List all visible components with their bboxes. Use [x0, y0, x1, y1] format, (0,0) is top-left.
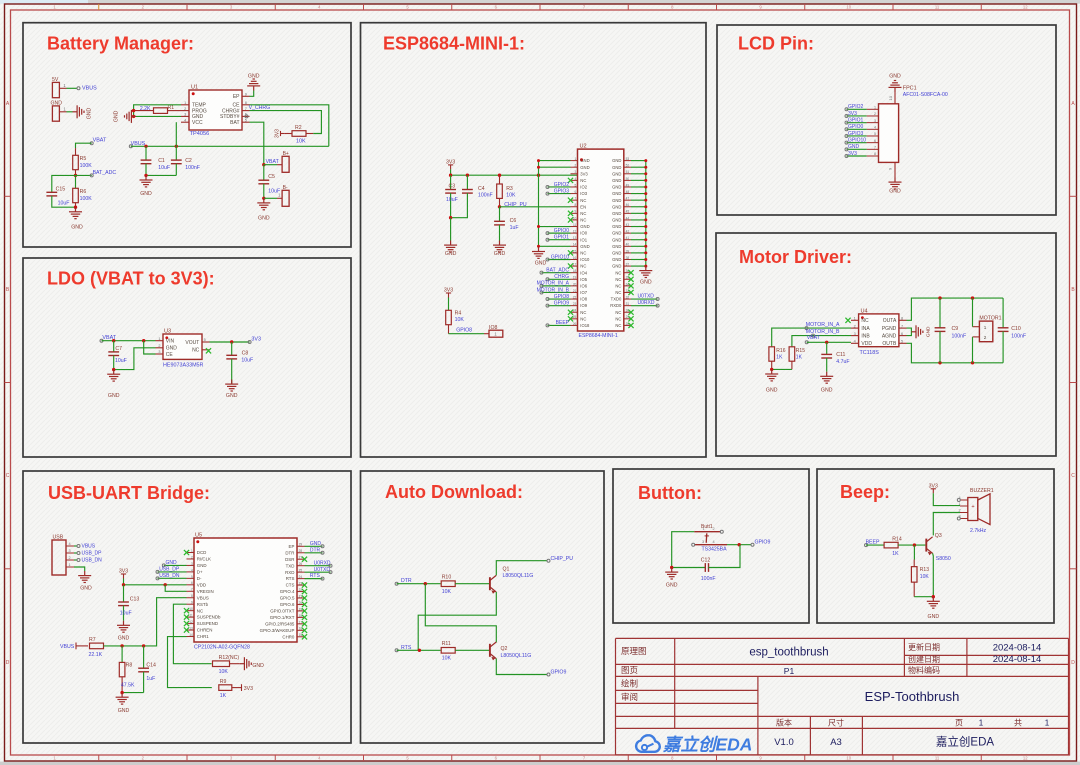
- svg-text:GND: GND: [310, 541, 322, 547]
- U5 pin 17 GPIO.2/RS485: [297, 623, 305, 625]
- svg-text:100nF: 100nF: [478, 192, 493, 198]
- wire U2 right GND stub 4: [631, 179, 646, 181]
- transistor Q1 L8050QL11G: [489, 577, 491, 590]
- U3 pin 2 GND: [156, 347, 164, 349]
- svg-text:IO10: IO10: [580, 257, 590, 262]
- svg-text:29: 29: [299, 543, 303, 547]
- capacitor C5 10uF: [263, 165, 265, 181]
- svg-text:NC: NC: [615, 316, 621, 321]
- svg-text:43: 43: [626, 223, 630, 227]
- svg-text:AFC01-S08FCA-00: AFC01-S08FCA-00: [903, 92, 948, 98]
- FPC1 pin 2 3V3: [867, 115, 879, 117]
- svg-text:U0TXD: U0TXD: [314, 567, 331, 573]
- svg-text:IO18: IO18: [580, 323, 590, 328]
- wire USB_DP: [74, 552, 78, 554]
- svg-text:1: 1: [158, 337, 160, 341]
- svg-text:14: 14: [573, 243, 577, 247]
- svg-text:5: 5: [245, 118, 247, 122]
- svg-text:U0RXD: U0RXD: [638, 300, 655, 306]
- svg-text:GPIO8: GPIO8: [554, 294, 570, 300]
- svg-text:GND: GND: [612, 204, 621, 209]
- svg-text:IO9: IO9: [580, 303, 587, 308]
- wire CE tie to VIN: [144, 341, 156, 354]
- svg-text:3: 3: [158, 350, 160, 354]
- svg-text:S8050: S8050: [936, 556, 951, 562]
- svg-text:GND: GND: [612, 231, 621, 236]
- svg-text:46: 46: [626, 203, 630, 207]
- U1 pin 5 BAT: [242, 121, 250, 123]
- svg-text:绘制: 绘制: [621, 678, 638, 688]
- U1 pin 6 STDBY#: [242, 115, 250, 117]
- wire button right to GPIO9: [727, 544, 752, 546]
- svg-text:共: 共: [1014, 718, 1022, 727]
- svg-text:GND: GND: [612, 178, 621, 183]
- wire U3 GND loop: [114, 348, 156, 370]
- svg-text:NC: NC: [580, 178, 586, 183]
- svg-text:GPIO0: GPIO0: [848, 124, 864, 130]
- wire CE loop to VBUS rail: [250, 105, 329, 147]
- buzzer pin 1: [960, 505, 968, 507]
- U3 pin 5 VOUT: [202, 341, 210, 343]
- svg-text:9: 9: [191, 601, 193, 605]
- svg-text:2.2K: 2.2K: [140, 106, 151, 112]
- USB-UART box: [23, 471, 351, 743]
- net label USB_DN u5: [158, 577, 187, 579]
- svg-text:47.5K: 47.5K: [121, 682, 135, 688]
- svg-text:GPIO.5: GPIO.5: [280, 596, 295, 601]
- resistor R16 1K: [769, 347, 775, 361]
- chip U2 ESP8684-MINI-1: [578, 149, 624, 331]
- wire R10 to Q1 base: [455, 583, 489, 585]
- FPC1 pin 1 GPIO2: [867, 108, 879, 110]
- net label GND u5 right: [305, 545, 323, 547]
- svg-text:GND: GND: [535, 260, 547, 266]
- svg-text:GND: GND: [580, 244, 589, 249]
- net label U0TXD u5: [305, 571, 331, 573]
- svg-text:25: 25: [573, 315, 577, 319]
- svg-text:NC: NC: [861, 318, 869, 324]
- svg-text:R4: R4: [455, 311, 462, 317]
- U5 pin 29 EP: [297, 545, 305, 547]
- svg-text:B-: B-: [283, 185, 288, 191]
- svg-text:GND: GND: [612, 257, 621, 262]
- svg-text:GPIO.6: GPIO.6: [280, 602, 295, 607]
- svg-text:GND: GND: [612, 191, 621, 196]
- wire VBAT to B+: [264, 164, 277, 166]
- wire U2 right GND stub 2: [631, 166, 646, 168]
- net label U0RXD: [631, 305, 658, 307]
- svg-text:3V3: 3V3: [244, 686, 253, 692]
- svg-text:8: 8: [191, 594, 193, 598]
- svg-text:3V3: 3V3: [444, 288, 453, 294]
- svg-text:10K: 10K: [506, 192, 516, 198]
- Auto Download box: [361, 471, 605, 743]
- net label BAT_ADC: [542, 272, 571, 274]
- svg-text:RI/CLK: RI/CLK: [197, 557, 211, 562]
- svg-text:6: 6: [191, 581, 193, 585]
- U5 pin 5 D-: [187, 577, 195, 579]
- svg-text:Button:: Button:: [638, 483, 702, 503]
- svg-text:GND: GND: [108, 393, 120, 399]
- U4 pin 8 OUTA: [899, 319, 907, 321]
- svg-text:GPIO9: GPIO9: [551, 670, 567, 676]
- svg-text:21: 21: [573, 289, 577, 293]
- svg-text:1uF: 1uF: [146, 676, 155, 682]
- net label DTR u5: [305, 552, 323, 554]
- svg-text:L8050QL11G: L8050QL11G: [503, 573, 534, 579]
- svg-text:GPIO10: GPIO10: [848, 137, 866, 143]
- wire U2 right GND stub 7: [631, 199, 646, 201]
- svg-text:R15: R15: [796, 348, 805, 354]
- svg-text:FPC1: FPC1: [903, 85, 917, 91]
- svg-text:C2: C2: [185, 158, 192, 164]
- svg-text:2: 2: [854, 324, 856, 328]
- svg-text:USB_DP: USB_DP: [82, 550, 103, 556]
- svg-text:GND: GND: [640, 279, 652, 285]
- svg-text:USB_DN: USB_DN: [82, 557, 103, 563]
- svg-text:3: 3: [854, 332, 856, 336]
- svg-text:1: 1: [191, 549, 193, 553]
- U1 pin 9 EP: [242, 95, 250, 97]
- svg-text:4: 4: [713, 540, 715, 544]
- svg-text:GND: GND: [926, 326, 932, 337]
- svg-text:GND: GND: [612, 224, 621, 229]
- svg-text:页: 页: [955, 718, 963, 727]
- svg-text:C3: C3: [449, 183, 456, 189]
- svg-text:2: 2: [191, 555, 193, 559]
- chip U4 TC118S: [859, 314, 899, 347]
- svg-text:GPIO2: GPIO2: [554, 182, 570, 188]
- U5 pin 24 RTS: [297, 578, 305, 580]
- FPC1 pin 3 GPIO1: [867, 122, 879, 124]
- svg-text:CHR1: CHR1: [197, 634, 210, 639]
- svg-text:10uF: 10uF: [158, 165, 170, 171]
- svg-text:10K: 10K: [219, 669, 229, 675]
- U1 pin 2 PROG: [181, 110, 189, 112]
- svg-text:U2: U2: [580, 144, 587, 150]
- svg-text:RXD0: RXD0: [610, 303, 622, 308]
- svg-text:GND: GND: [118, 635, 130, 641]
- net label GPIO9: [548, 305, 571, 307]
- wire C1-C2 bottoms: [146, 174, 176, 176]
- svg-text:GND: GND: [928, 614, 940, 620]
- wire U2 right GND stub 11: [631, 226, 646, 228]
- svg-text:IO4: IO4: [580, 270, 587, 275]
- svg-text:10uF: 10uF: [58, 201, 70, 207]
- capacitor C12 100nF: [704, 563, 706, 572]
- svg-text:V1.0: V1.0: [774, 737, 794, 748]
- net flag VBAT ldo: [100, 339, 103, 342]
- ground below C8: [225, 380, 238, 392]
- wire Q1 emitter to RTS net: [418, 592, 496, 650]
- svg-text:GND: GND: [80, 585, 92, 591]
- svg-text:VCC: VCC: [192, 120, 203, 126]
- svg-text:AGND: AGND: [882, 333, 897, 339]
- svg-text:9: 9: [575, 210, 577, 214]
- svg-text:Q2: Q2: [501, 646, 508, 652]
- svg-text:17: 17: [299, 620, 303, 624]
- svg-text:3V3: 3V3: [275, 129, 281, 138]
- resistor R11 10K: [441, 648, 455, 654]
- wire U2 right GND stub 15: [631, 252, 646, 254]
- LCD box: [717, 25, 1056, 215]
- svg-text:100nF: 100nF: [952, 333, 967, 339]
- svg-text:10K: 10K: [442, 655, 452, 661]
- svg-text:16: 16: [299, 627, 303, 631]
- svg-text:IO6: IO6: [580, 283, 587, 288]
- chip U3 HE9073A33M5R: [163, 334, 202, 359]
- svg-text:R5: R5: [80, 156, 87, 162]
- svg-text:GND: GND: [612, 251, 621, 256]
- svg-text:22: 22: [573, 295, 577, 299]
- U5 pin 7 VREGIN: [187, 590, 195, 592]
- wire 3V3 to buzzer pin1: [933, 493, 960, 505]
- svg-text:26: 26: [573, 322, 577, 326]
- svg-text:3: 3: [191, 562, 193, 566]
- svg-text:NC: NC: [580, 218, 586, 223]
- svg-text:3V3: 3V3: [848, 151, 857, 157]
- capacitor C14 1uF: [143, 646, 145, 668]
- svg-text:21: 21: [299, 594, 303, 598]
- svg-text:创建日期: 创建日期: [908, 654, 940, 664]
- svg-text:23: 23: [299, 581, 303, 585]
- svg-text:R7: R7: [89, 637, 96, 643]
- svg-text:47: 47: [626, 197, 630, 201]
- svg-text:3V3: 3V3: [446, 159, 455, 165]
- U5 pin 25 RXD: [297, 571, 305, 573]
- svg-text:GND: GND: [612, 211, 621, 216]
- U1 pin 3 GND: [181, 115, 189, 117]
- net flag DTR: [395, 582, 398, 585]
- svg-text:GND: GND: [166, 346, 178, 352]
- net label MOTOR_IN_B: [542, 291, 571, 293]
- connector USB: [52, 540, 66, 575]
- svg-text:ESP-Toothbrush: ESP-Toothbrush: [865, 689, 960, 704]
- svg-text:42: 42: [626, 230, 630, 234]
- USB pin 4: [66, 545, 74, 547]
- svg-text:13: 13: [189, 626, 193, 630]
- net label CHRG: [548, 278, 571, 280]
- wire C5 bottom to B-: [262, 197, 265, 200]
- svg-text:R2: R2: [295, 125, 302, 131]
- connector B-: [282, 190, 289, 206]
- net label U0RXD u5: [305, 565, 331, 567]
- ground below Q3: [927, 597, 940, 609]
- svg-text:更新日期: 更新日期: [908, 642, 940, 652]
- svg-text:GND: GND: [71, 224, 83, 230]
- USB pin 3: [66, 552, 74, 554]
- wire U2 right GND stub 13: [631, 239, 646, 241]
- svg-text:Q3: Q3: [935, 533, 942, 539]
- svg-text:11: 11: [189, 614, 193, 618]
- svg-text:25: 25: [299, 569, 303, 573]
- net GPIO8 wire: [449, 333, 485, 335]
- svg-text:8: 8: [245, 101, 247, 105]
- svg-text:R10: R10: [442, 575, 452, 581]
- USB pin 2: [66, 559, 74, 561]
- ground above FPC1: [889, 81, 902, 93]
- svg-text:GND: GND: [166, 560, 178, 566]
- svg-text:GND: GND: [226, 393, 238, 399]
- U5 pin 20 GPIO.6: [297, 603, 305, 605]
- svg-text:3: 3: [575, 170, 577, 174]
- U2 left GND bus: [538, 161, 540, 247]
- svg-text:5V: 5V: [52, 77, 59, 83]
- ground above U1 EP: [250, 91, 254, 97]
- net flag RTS: [395, 649, 398, 652]
- svg-text:24: 24: [573, 309, 577, 313]
- svg-text:CHR0: CHR0: [282, 634, 295, 639]
- svg-text:19: 19: [573, 276, 577, 280]
- wire 5V to VBUS: [67, 87, 78, 89]
- FPC1 pin 4 GPIO0: [867, 128, 879, 130]
- svg-text:TS3425BA: TS3425BA: [702, 547, 728, 553]
- svg-text:31: 31: [626, 302, 630, 306]
- svg-text:GPIO3: GPIO3: [554, 188, 570, 194]
- U3 pin 3 CE: [156, 353, 164, 355]
- svg-text:8: 8: [575, 203, 577, 207]
- svg-text:GND: GND: [612, 264, 621, 269]
- svg-text:NC: NC: [580, 310, 586, 315]
- svg-text:20: 20: [573, 282, 577, 286]
- svg-text:LDO (VBAT to 3V3):: LDO (VBAT to 3V3):: [47, 269, 215, 289]
- capacitor C9 100nF: [939, 298, 941, 328]
- svg-text:B+: B+: [283, 151, 289, 157]
- capacitor C8 10uF: [231, 342, 233, 355]
- transistor Q3 S8050: [925, 539, 927, 552]
- wire U2 right GND stub 12: [631, 232, 646, 234]
- junction dots near R1: [132, 109, 135, 112]
- svg-text:4: 4: [854, 340, 856, 344]
- power flag 3V3 at R2 (rotated): [281, 133, 285, 135]
- svg-text:1: 1: [979, 718, 984, 727]
- svg-text:RSTb: RSTb: [197, 602, 209, 607]
- U5 left X marks: [184, 550, 189, 555]
- wire U1 BAT down to VBAT: [250, 122, 264, 165]
- svg-text:GPIO1: GPIO1: [554, 235, 570, 241]
- resistor R12(NC) 10K: [213, 661, 230, 667]
- svg-text:C1: C1: [158, 158, 165, 164]
- net flag BAT_ADC: [74, 174, 77, 177]
- svg-text:3: 3: [68, 549, 70, 553]
- U5 pin 12 SUSPEND: [187, 623, 195, 625]
- svg-text:R3: R3: [506, 186, 513, 192]
- svg-text:PGND: PGND: [882, 326, 897, 332]
- wire USB_DN: [74, 559, 78, 561]
- svg-text:Motor Driver:: Motor Driver:: [739, 247, 852, 267]
- svg-text:C9: C9: [952, 326, 959, 332]
- svg-text:53: 53: [626, 157, 630, 161]
- svg-text:100K: 100K: [80, 163, 93, 169]
- wire U2 right GND stub 3: [631, 173, 646, 175]
- svg-text:10: 10: [846, 5, 851, 10]
- wire VBUS rail: [131, 145, 329, 147]
- svg-text:4: 4: [191, 568, 193, 572]
- svg-text:USB_DP: USB_DP: [159, 567, 180, 573]
- svg-text:GND: GND: [580, 158, 589, 163]
- svg-text:10: 10: [573, 216, 577, 220]
- svg-text:GPIO3: GPIO3: [848, 131, 864, 137]
- svg-text:10: 10: [846, 756, 851, 761]
- svg-text:1K: 1K: [220, 693, 227, 699]
- ground below C3: [449, 216, 452, 219]
- svg-text:CTS: CTS: [286, 583, 295, 588]
- resistor R4 10K: [448, 298, 450, 311]
- U5 pin 11 SUSPENDb: [187, 616, 195, 618]
- svg-text:C15: C15: [56, 186, 66, 192]
- svg-text:GPIO9: GPIO9: [554, 300, 570, 306]
- svg-text:OUTB: OUTB: [882, 341, 897, 347]
- wire C12 row: [672, 567, 706, 569]
- svg-text:IO0: IO0: [580, 231, 587, 236]
- net label GPIO3: [548, 193, 571, 195]
- svg-text:5: 5: [204, 338, 206, 342]
- U5 pin 22 GPIO.4: [297, 591, 305, 593]
- svg-text:4: 4: [68, 542, 70, 546]
- svg-text:5: 5: [901, 340, 903, 344]
- buzzer pin 3: [960, 518, 968, 520]
- svg-text:37: 37: [626, 262, 630, 266]
- svg-text:NC: NC: [615, 310, 621, 315]
- svg-text:1: 1: [703, 527, 705, 531]
- svg-text:R14: R14: [892, 536, 902, 542]
- U1 pin 7 CHRG#: [242, 110, 250, 112]
- svg-text:DTR: DTR: [285, 550, 294, 555]
- svg-text:50: 50: [626, 177, 630, 181]
- ground below right bus: [639, 266, 652, 278]
- wire DTR to R10: [397, 583, 441, 585]
- svg-text:D-: D-: [197, 576, 202, 581]
- wire VBAT to U3 VIN: [102, 340, 156, 342]
- svg-text:GND: GND: [118, 708, 130, 714]
- Motor box: [716, 233, 1056, 456]
- svg-text:10K: 10K: [296, 139, 306, 145]
- svg-text:11: 11: [935, 5, 940, 10]
- svg-text:RTS: RTS: [310, 573, 321, 579]
- svg-text:MOTOR_IN_A: MOTOR_IN_A: [806, 322, 840, 328]
- U3 pin 1 VIN: [156, 340, 164, 342]
- wire USB VBUS: [74, 545, 78, 547]
- svg-text:10uF: 10uF: [241, 358, 253, 364]
- svg-text:1: 1: [984, 325, 987, 330]
- svg-text:CE: CE: [166, 352, 174, 358]
- U2 left pins: [571, 160, 578, 162]
- U5 pin 6 VDD: [187, 584, 195, 586]
- resistor R5 100K: [75, 148, 77, 155]
- svg-text:GPIO.2/RS485: GPIO.2/RS485: [265, 621, 295, 626]
- svg-text:C4: C4: [478, 186, 485, 192]
- svg-text:U0TXD: U0TXD: [638, 294, 655, 300]
- connector FPC1 AFC01-S08FCA-00: [879, 104, 899, 163]
- svg-text:2: 2: [984, 335, 987, 340]
- FPC1 pin 7 GND: [867, 148, 879, 150]
- ground below FPC1: [889, 178, 902, 190]
- wire R14 to Q3 base: [898, 544, 925, 546]
- svg-text:GND: GND: [445, 251, 457, 257]
- wire CHR1 to R9: [168, 637, 212, 688]
- svg-text:C5: C5: [268, 174, 275, 180]
- svg-text:GND: GND: [197, 563, 207, 568]
- svg-text:VREGIN: VREGIN: [197, 589, 214, 594]
- svg-text:MOTOR_IN_A: MOTOR_IN_A: [537, 281, 570, 287]
- svg-text:7: 7: [575, 197, 577, 201]
- svg-text:D: D: [1071, 660, 1075, 666]
- U1 pin 8 CE: [242, 104, 250, 106]
- svg-text:6: 6: [575, 190, 577, 194]
- U5 pin 10 NC: [187, 610, 195, 612]
- resistor R10 10K: [441, 581, 455, 587]
- svg-text:VIN: VIN: [166, 339, 175, 345]
